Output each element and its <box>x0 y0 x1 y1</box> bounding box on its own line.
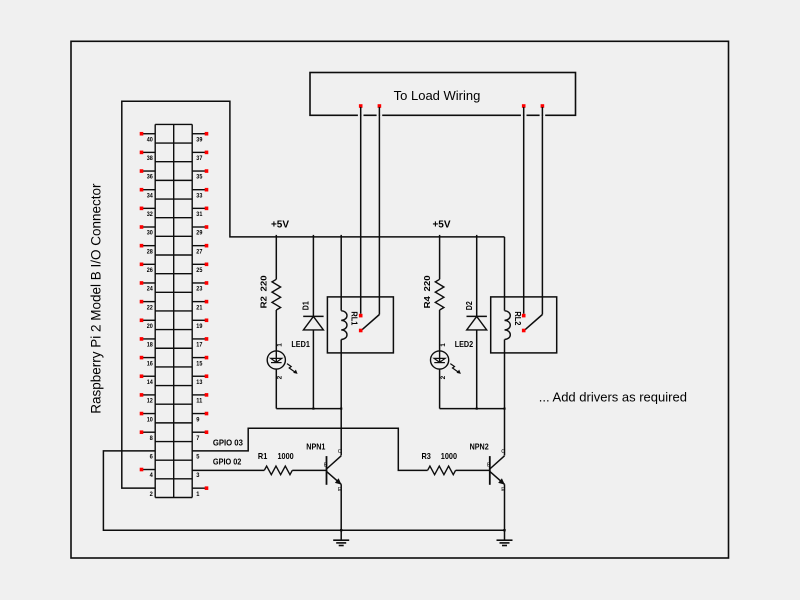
wire GPIO 02 net from pin 3 <box>192 469 264 471</box>
svg-text:... Add drivers as required: ... Add drivers as required <box>539 390 687 405</box>
pin 17 <box>192 337 208 349</box>
pin 37 <box>192 151 208 163</box>
svg-text:GPIO 03: GPIO 03 <box>213 438 243 448</box>
pin 19 <box>192 318 208 330</box>
note text <box>539 390 687 405</box>
svg-text:23: 23 <box>196 286 202 293</box>
svg-text:2: 2 <box>277 375 284 379</box>
pin 25 <box>192 263 208 275</box>
svg-text:9: 9 <box>196 416 200 423</box>
pin 26 <box>140 263 156 275</box>
pin 27 <box>192 244 208 256</box>
svg-text:28: 28 <box>147 248 153 255</box>
svg-text:5: 5 <box>196 454 200 461</box>
transistor Q1 NPN <box>306 441 342 530</box>
svg-text:E: E <box>338 487 342 493</box>
svg-text:1000: 1000 <box>441 451 457 461</box>
svg-text:19: 19 <box>196 323 202 330</box>
svg-text:NPN2: NPN2 <box>470 441 489 451</box>
pin 12 <box>140 393 156 405</box>
svg-text:1000: 1000 <box>278 451 294 461</box>
svg-text:7: 7 <box>196 435 200 442</box>
pin 29 <box>192 225 208 237</box>
svg-text:40: 40 <box>147 136 153 143</box>
pin 4 <box>140 468 156 480</box>
svg-text:15: 15 <box>196 360 202 367</box>
svg-text:16: 16 <box>147 360 153 367</box>
svg-text:29: 29 <box>196 230 202 237</box>
svg-text:32: 32 <box>147 211 153 218</box>
svg-text:2: 2 <box>440 375 447 379</box>
svg-text:RL1: RL1 <box>350 311 359 325</box>
pin 39 <box>192 132 208 144</box>
pin 9 <box>192 412 208 424</box>
pin 28 <box>140 244 156 256</box>
pin 33 <box>192 188 208 200</box>
svg-text:2: 2 <box>150 491 154 498</box>
svg-text:11: 11 <box>196 398 202 405</box>
ground 2 <box>497 529 513 546</box>
transistor Q2 NPN <box>470 441 506 530</box>
pin 34 <box>140 188 156 200</box>
LED2 <box>431 339 474 409</box>
svg-text:38: 38 <box>147 155 153 162</box>
pin 11 <box>192 393 208 405</box>
pin 23 <box>192 281 208 293</box>
svg-text:R1: R1 <box>258 451 268 461</box>
svg-text:31: 31 <box>196 211 202 218</box>
svg-text:Raspberry Pi 2 Model B I/O Con: Raspberry Pi 2 Model B I/O Connector <box>89 183 104 414</box>
wire load B to relay RL1 common <box>378 104 382 314</box>
svg-text:37: 37 <box>196 155 202 162</box>
pin 30 <box>140 225 156 237</box>
power label +5V right <box>432 219 450 230</box>
pin 22 <box>140 300 156 312</box>
LED1 <box>267 339 310 409</box>
svg-text:B: B <box>487 463 491 469</box>
svg-text:R3: R3 <box>422 451 432 461</box>
svg-text:33: 33 <box>196 192 202 199</box>
svg-text:35: 35 <box>196 174 202 181</box>
pin 10 <box>140 412 156 424</box>
svg-text:C: C <box>501 449 505 455</box>
svg-text:LED2: LED2 <box>455 339 474 349</box>
diode D1 flyback <box>301 235 324 410</box>
resistor R2 220 <box>259 235 281 351</box>
svg-text:8: 8 <box>150 435 154 442</box>
svg-text:6: 6 <box>150 454 154 461</box>
pin 35 <box>192 169 208 181</box>
svg-text:17: 17 <box>196 342 202 349</box>
wire GPIO 03 net from pin 5 <box>192 428 427 470</box>
svg-text:25: 25 <box>196 267 202 274</box>
load wiring box <box>310 73 576 116</box>
pin 14 <box>140 374 156 386</box>
svg-text:R4 220: R4 220 <box>422 275 432 308</box>
svg-text:B: B <box>324 463 328 469</box>
svg-text:D2: D2 <box>464 301 474 310</box>
power label +5V left <box>271 219 289 230</box>
ground 1 <box>333 529 349 546</box>
svg-text:LED1: LED1 <box>291 339 310 349</box>
svg-text:NPN1: NPN1 <box>306 441 325 451</box>
wire crossing gaps at load box edge <box>358 114 545 116</box>
pin 20 <box>140 318 156 330</box>
pin 18 <box>140 337 156 349</box>
pin 40 <box>140 132 156 144</box>
svg-text:1: 1 <box>277 343 284 347</box>
svg-text:22: 22 <box>147 304 153 311</box>
border frame <box>71 41 729 558</box>
resistor R3 1000 <box>422 451 490 474</box>
pin 13 <box>192 374 208 386</box>
svg-text:D1: D1 <box>301 301 311 310</box>
svg-text:36: 36 <box>147 174 153 181</box>
svg-text:13: 13 <box>196 379 202 386</box>
connector title label <box>89 183 104 414</box>
svg-text:26: 26 <box>147 267 153 274</box>
resistor R1 1000 <box>258 451 327 474</box>
svg-text:27: 27 <box>196 248 202 255</box>
svg-text:34: 34 <box>147 192 153 199</box>
relay RL1 switch blade <box>359 315 380 333</box>
pin 6 <box>150 454 154 461</box>
svg-text:18: 18 <box>147 342 153 349</box>
svg-text:12: 12 <box>147 398 153 405</box>
svg-text:21: 21 <box>196 304 202 311</box>
svg-text:10: 10 <box>147 416 153 423</box>
wire load B to relay RL2 common <box>541 104 545 314</box>
pin 7 <box>192 430 208 442</box>
pin 31 <box>192 207 208 219</box>
pin 16 <box>140 356 156 368</box>
svg-text:24: 24 <box>147 286 153 293</box>
connector J1 Raspberry Pi 40-pin header <box>155 124 192 497</box>
svg-text:4: 4 <box>150 472 154 479</box>
svg-text:39: 39 <box>196 136 202 143</box>
pin 5 <box>196 454 200 461</box>
wire LED2 cathode rail <box>440 408 505 410</box>
svg-text:+5V: +5V <box>432 219 450 230</box>
pin 32 <box>140 207 156 219</box>
svg-text:C: C <box>338 449 342 455</box>
wire ground from pin 6 <box>103 451 504 530</box>
pin 21 <box>192 300 208 312</box>
wire LED1 cathode rail <box>276 408 341 410</box>
pin 15 <box>192 356 208 368</box>
pin 1 <box>192 486 208 498</box>
pin 38 <box>140 151 156 163</box>
relay RL1 <box>327 235 393 456</box>
diode D2 flyback <box>464 235 487 410</box>
svg-text:R2 220: R2 220 <box>259 275 269 308</box>
net label GPIO 03 <box>213 438 243 448</box>
pin 8 <box>140 430 156 442</box>
svg-text:20: 20 <box>147 323 153 330</box>
pin 36 <box>140 169 156 181</box>
svg-text:RL2: RL2 <box>513 311 522 325</box>
resistor R4 220 <box>422 235 444 351</box>
relay RL2 switch blade <box>522 315 543 333</box>
svg-text:3: 3 <box>196 472 200 479</box>
wire load A to relay RL1 contact <box>359 104 363 317</box>
svg-text:+5V: +5V <box>271 219 289 230</box>
pin 2 <box>150 491 154 498</box>
pin 24 <box>140 281 156 293</box>
wire +5V from pin 2 <box>122 101 505 488</box>
svg-text:14: 14 <box>147 379 153 386</box>
svg-text:GPIO 02: GPIO 02 <box>213 456 242 466</box>
net label GPIO 02 <box>213 456 242 466</box>
svg-text:E: E <box>501 487 505 493</box>
svg-text:1: 1 <box>440 343 447 347</box>
svg-text:1: 1 <box>196 491 200 498</box>
wire load A to relay RL2 contact <box>522 104 526 317</box>
relay RL2 <box>491 237 557 456</box>
svg-text:30: 30 <box>147 230 153 237</box>
svg-text:To Load Wiring: To Load Wiring <box>394 88 481 103</box>
pin 3 <box>196 472 200 479</box>
